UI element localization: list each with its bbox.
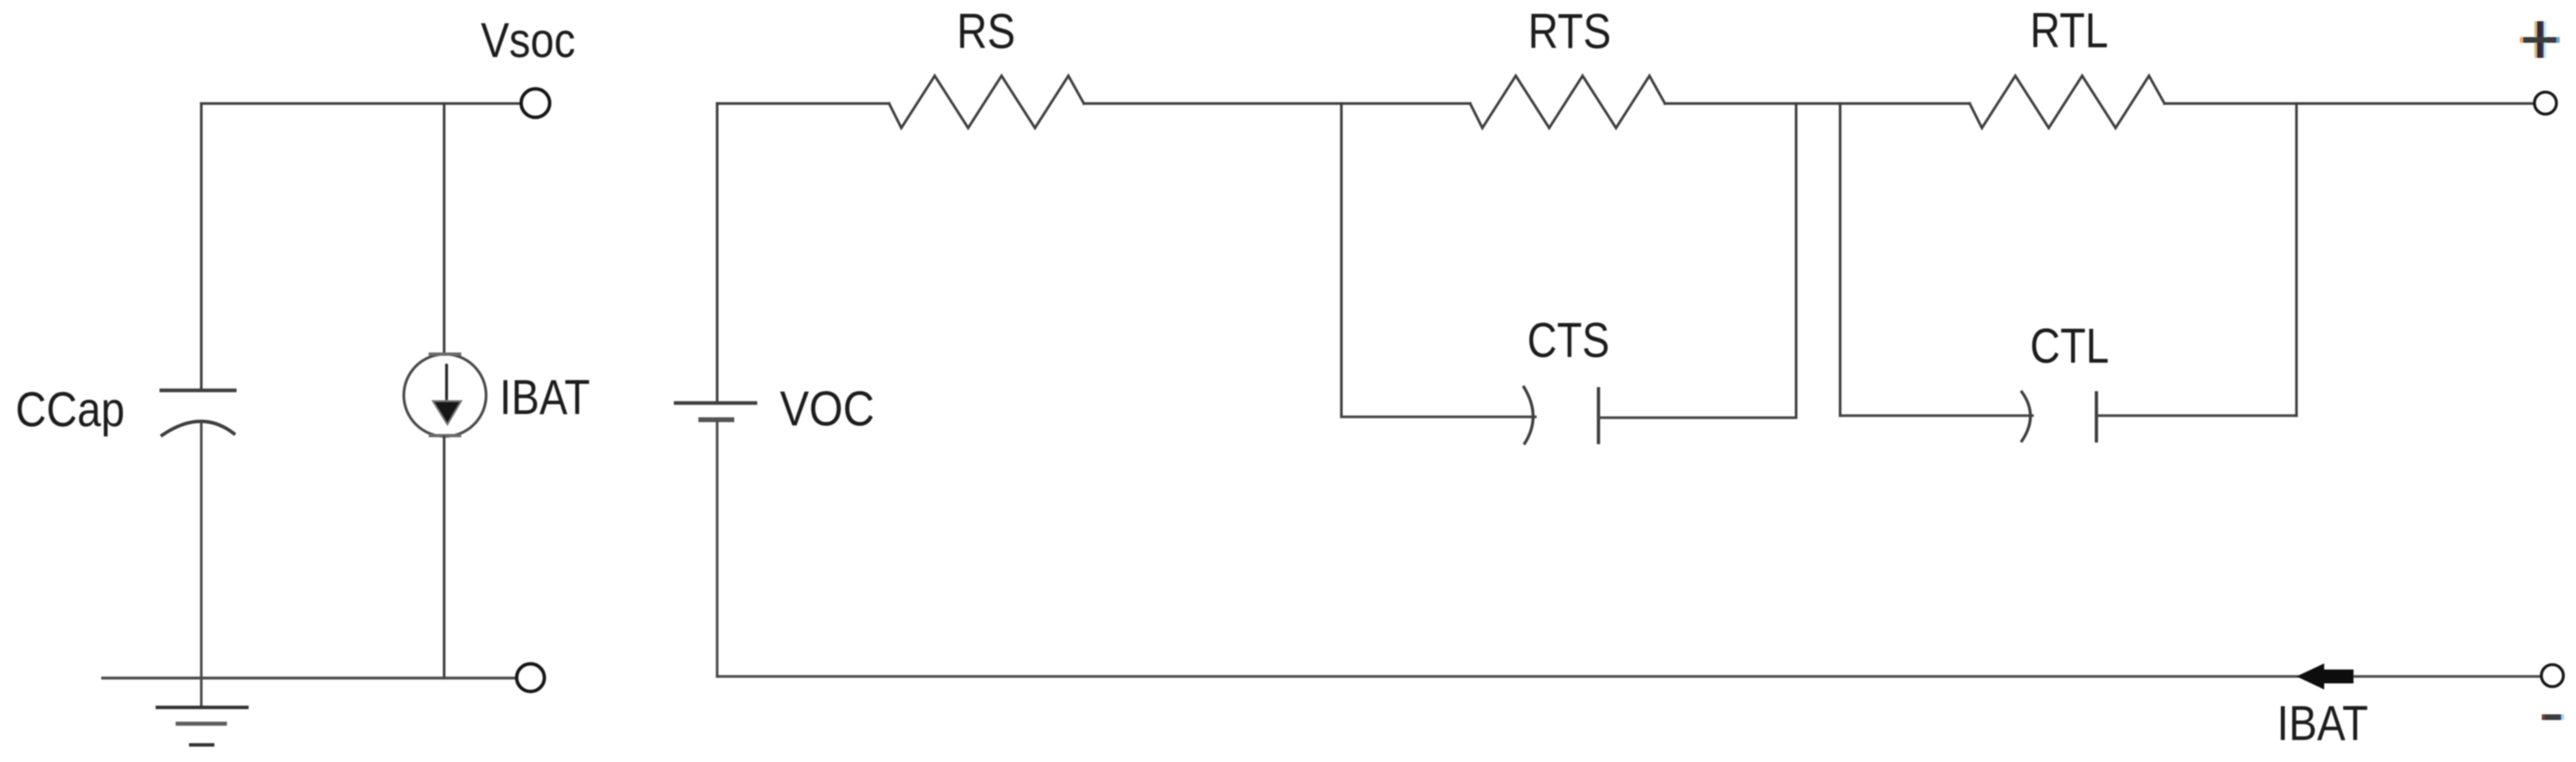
wire: left circuit bottom rail	[103, 676, 517, 680]
svg-text:VOC: VOC	[780, 381, 874, 436]
capacitor CTL	[2022, 392, 2097, 441]
wire: RC loop 2 bottom left segment	[1840, 414, 2032, 416]
terminal circle bottom left	[517, 664, 544, 692]
wire: ground stem	[200, 678, 202, 706]
svg-text:CTL: CTL	[2030, 319, 2109, 373]
wire: top rail RTL to + terminal	[2164, 102, 2532, 104]
wire: left vertical branch lower (CCap to bottom rail)	[200, 424, 202, 678]
current arrow IBAT (bottom rail)	[2296, 663, 2354, 689]
svg-text:RTL: RTL	[2030, 3, 2108, 58]
wire: VOC branch lower	[716, 422, 718, 676]
terminal - sign	[2542, 715, 2565, 720]
svg-text:IBAT: IBAT	[500, 370, 590, 425]
resistor RS	[889, 76, 1084, 128]
wire: bottom rail	[717, 675, 2540, 677]
wire: RC loop 2 bottom right segment	[2097, 414, 2297, 416]
wire: RC loop 1 right branch	[1794, 104, 1797, 416]
svg-text:CTS: CTS	[1527, 313, 1609, 368]
svg-text:Vsoc: Vsoc	[481, 13, 575, 68]
wire: VOC branch upper	[716, 104, 718, 401]
current source IBAT (circle)	[404, 355, 487, 437]
resistor RTL	[1970, 76, 2164, 128]
wire: top rail RS to RTS	[1084, 102, 1470, 104]
resistor RTS	[1470, 76, 1665, 128]
svg-text:IBAT: IBAT	[2277, 696, 2368, 751]
wire: left circuit top (node to Vsoc terminal)	[201, 102, 521, 104]
terminal circle top right	[2534, 92, 2556, 114]
wire: top rail VOC to RS	[717, 102, 889, 104]
wire: RC loop 1 bottom right segment	[1599, 416, 1797, 419]
wire: RC loop 2 right branch	[2295, 104, 2297, 416]
svg-text:CCap: CCap	[15, 382, 125, 437]
terminal circle bottom right	[2542, 665, 2564, 687]
battery VOC	[676, 403, 755, 421]
wire: IBAT branch upper	[443, 104, 445, 355]
terminal + sign	[2520, 21, 2560, 58]
ground	[157, 707, 247, 745]
wire: RC loop 1 bottom left segment	[1341, 416, 1535, 418]
wire: IBAT branch lower	[443, 437, 445, 678]
wire: RC loop 2 left branch	[1838, 104, 1841, 416]
svg-text:RTS: RTS	[1528, 4, 1611, 59]
svg-text:RS: RS	[957, 4, 1015, 59]
capacitor CTS	[1524, 387, 1599, 443]
capacitor CCap	[161, 390, 235, 435]
wire: top rail RTS to RTL	[1665, 102, 1970, 104]
wire: left vertical branch upper (to CCap top plate)	[200, 104, 202, 390]
wire: RC loop 1 left branch	[1340, 104, 1342, 416]
node Vsoc terminal circle	[522, 89, 550, 117]
